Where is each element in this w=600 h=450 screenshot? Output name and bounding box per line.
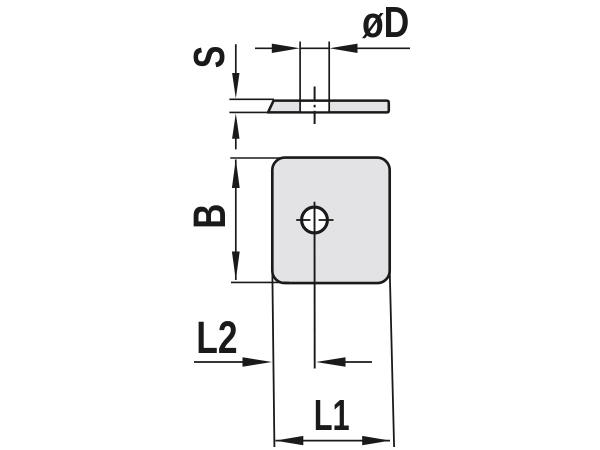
side view plate (gray section): [268, 101, 389, 113]
vertical centerline / extension to L2: [314, 202, 316, 369]
dimension B: top arrowhead: [232, 159, 240, 188]
dimension S: upper line: [235, 44, 237, 74]
side view bottom edge extension line: [229, 111, 268, 113]
dimension L1: right arrowhead: [362, 436, 390, 445]
left edge extension line (to L2/L1): [272, 267, 274, 447]
dimension L2: right arrowhead: [316, 357, 346, 366]
dimension B: top extension line: [230, 157, 284, 159]
svg-text:L2: L2: [196, 312, 237, 363]
svg-text:S: S: [185, 46, 234, 69]
svg-text:B: B: [185, 204, 235, 229]
dimension L2: right tail: [345, 361, 372, 363]
dimension S: lower line: [235, 138, 237, 149]
side view hole cut (white gap): [301, 102, 328, 111]
dimension S: upper arrowhead: [232, 73, 239, 99]
hole edge / extension line right: [328, 42, 330, 112]
hole horizontal centerline right: [319, 219, 334, 221]
dimension S: lower arrowhead: [232, 113, 239, 139]
dimension B: bottom extension line: [231, 281, 289, 283]
dimension oD: inner line: [300, 47, 329, 49]
dimension L2: left arrowhead: [243, 357, 273, 366]
dimension oD: left arrowhead: [272, 44, 300, 53]
side view top edge extension line: [229, 98, 274, 100]
side view centerline (dash-dot): [314, 87, 316, 100]
dimension L2: left tail: [194, 361, 243, 363]
hole horizontal centerline left: [296, 219, 310, 221]
hole edge / extension line left: [299, 42, 301, 112]
square plate (bottom view): [272, 158, 389, 284]
right edge extension line (to L1): [390, 269, 394, 447]
dimension B: line: [235, 160, 237, 281]
svg-text:L1: L1: [314, 392, 350, 441]
dimension oD: right arrowhead: [330, 44, 358, 53]
svg-text:øD: øD: [362, 0, 409, 47]
dimension oD: right tail: [357, 47, 410, 49]
dimension B: bottom arrowhead: [232, 252, 240, 281]
dimension L1: left arrowhead: [275, 436, 303, 445]
hole circle: [302, 207, 328, 233]
dimension L1: line: [276, 440, 391, 442]
dimension oD: left tail: [255, 47, 273, 49]
